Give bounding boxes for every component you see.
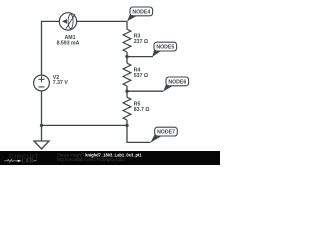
- svg-text:83.7 Ω: 83.7 Ω: [134, 107, 150, 113]
- svg-text:NODE4: NODE4: [132, 9, 150, 15]
- node flag NODE5: [152, 42, 176, 57]
- junction dot left: [40, 124, 43, 127]
- svg-text:NODE6: NODE6: [168, 79, 186, 85]
- junction bottom-right: [125, 124, 128, 127]
- node flag NODE4: [127, 7, 153, 21]
- resistor R3: [123, 29, 131, 52]
- svg-text:8.593 mA: 8.593 mA: [57, 40, 80, 46]
- junction node6: [125, 90, 128, 93]
- node flag NODE7: [150, 127, 177, 143]
- logo lab motif: [4, 159, 37, 165]
- junction node5: [125, 55, 128, 58]
- svg-text:NODE5: NODE5: [156, 45, 174, 51]
- node flag NODE6: [163, 77, 188, 92]
- ground: [34, 141, 49, 149]
- svg-text:237 Ω: 237 Ω: [134, 39, 148, 45]
- wire bottom-right: chain bottom to node7 stub: [127, 126, 151, 143]
- footer bar: [0, 151, 220, 165]
- wire top-left: V2 top to corner to ammeter left: [42, 21, 60, 75]
- resistor R5: [123, 97, 131, 120]
- svg-text:http://circuitlab.com/c/hc3bap: http://circuitlab.com/c/hc3bapfsn43bu: [57, 157, 125, 162]
- wire left: V2 bottom to ground: [41, 91, 43, 141]
- voltage source V2: [34, 75, 50, 91]
- wire right chain verticals: [126, 21, 128, 29]
- ammeter AM1: [59, 13, 76, 30]
- wire stub node6: [127, 90, 163, 92]
- svg-text:537 Ω: 537 Ω: [134, 73, 148, 79]
- svg-text:NODE7: NODE7: [157, 130, 175, 136]
- wire top-right: ammeter right to top-right corner: [77, 20, 127, 22]
- resistor R4: [123, 63, 131, 86]
- svg-text:LAB: LAB: [22, 159, 34, 165]
- wire bottom: junction to chain bottom: [42, 124, 128, 126]
- svg-text:7.37 V: 7.37 V: [53, 80, 69, 86]
- wire stub node5: [127, 56, 153, 58]
